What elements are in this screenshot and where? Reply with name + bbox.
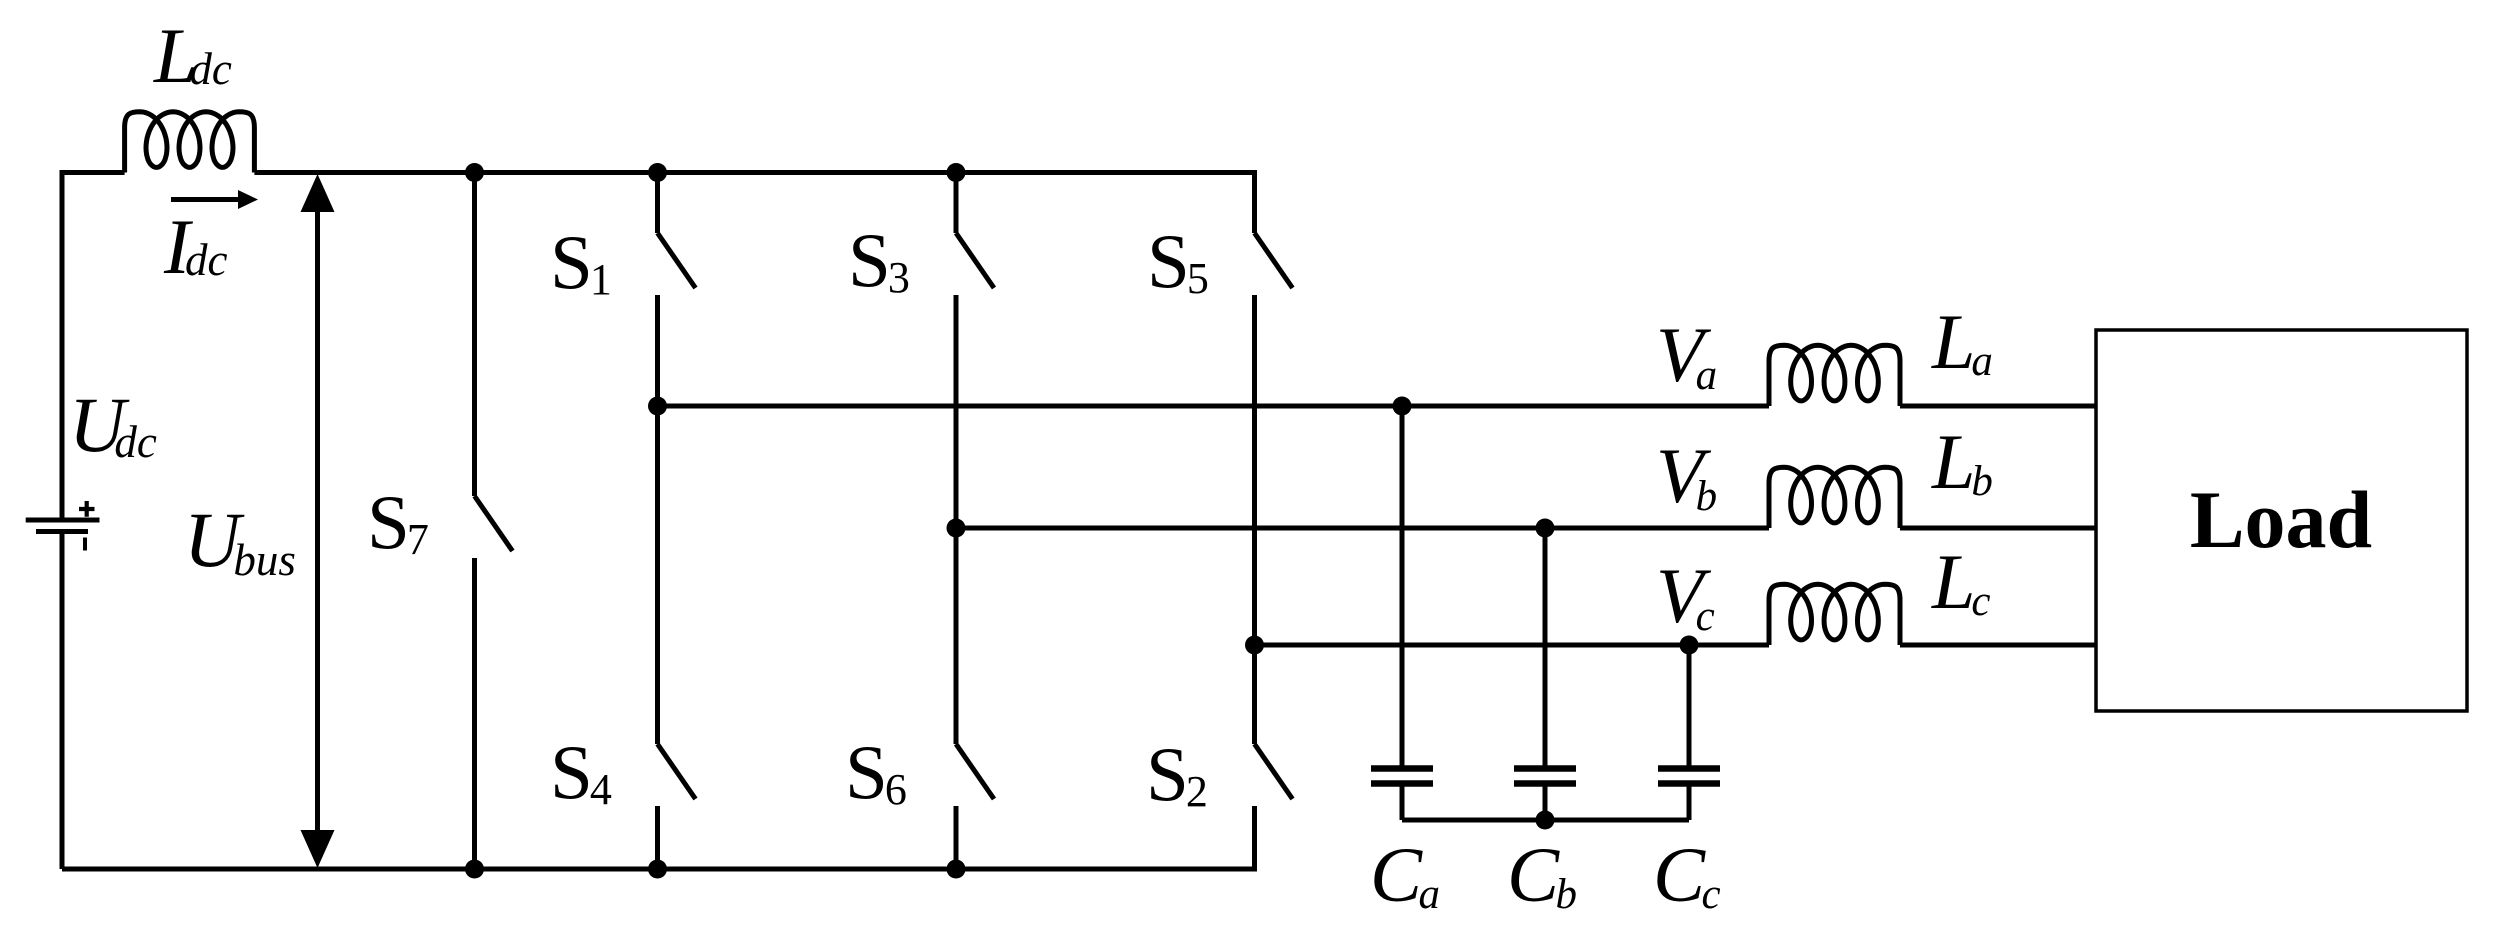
wire leg B mid section xyxy=(954,295,959,744)
wire phase C output (node to load) xyxy=(1255,643,2097,648)
wire S6 lower stub xyxy=(954,806,959,869)
wire Cb lower lead xyxy=(1543,787,1548,821)
wire leg A mid section xyxy=(655,295,660,744)
node phase C / Cc xyxy=(1680,636,1699,655)
wire phase B output (node to load) xyxy=(956,526,2096,531)
wire Cb upper lead xyxy=(1543,528,1548,766)
battery Udc plates xyxy=(26,518,100,523)
capacitor Cb xyxy=(1514,765,1576,772)
svg-text:Cb: Cb xyxy=(1507,831,1577,918)
wire Cc upper lead xyxy=(1687,645,1692,766)
battery plus polarity mark xyxy=(79,501,95,517)
svg-text:S7: S7 xyxy=(367,479,429,565)
svg-text:La: La xyxy=(1931,298,1993,385)
svg-text:S5: S5 xyxy=(1147,218,1209,304)
svg-text:Vb: Vb xyxy=(1656,432,1717,520)
svg-text:Ldc: Ldc xyxy=(153,12,232,99)
inductor Lc xyxy=(1769,584,1900,645)
inductor La xyxy=(1769,345,1900,406)
wire top dc bus xyxy=(62,170,1255,175)
wire S1 upper stub xyxy=(655,173,660,234)
node top wire / S1 xyxy=(648,163,667,182)
svg-text:Lb: Lb xyxy=(1931,418,1993,505)
node bottom wire / S4 xyxy=(648,860,667,879)
switch S6 blade xyxy=(956,744,994,799)
svg-text:Ca: Ca xyxy=(1370,831,1440,918)
arrow Idc current direction xyxy=(171,197,240,202)
load box xyxy=(2096,330,2467,711)
svg-text:Udc: Udc xyxy=(69,381,157,468)
inductor Ldc xyxy=(125,112,255,173)
svg-text:Load: Load xyxy=(2190,474,2372,565)
switch S3 blade xyxy=(956,233,994,288)
wire bottom return bus xyxy=(62,867,1255,872)
svg-text:S2: S2 xyxy=(1146,731,1208,817)
node phase B / Cb xyxy=(1536,519,1555,538)
capacitor Cc xyxy=(1658,765,1720,772)
measurement arrow Ubus (double headed) xyxy=(315,208,320,834)
node capacitor bus / Cb xyxy=(1536,811,1555,830)
wire leg C mid section xyxy=(1252,295,1257,744)
node top wire / S7 xyxy=(465,163,484,182)
switch S7 blade xyxy=(475,496,513,551)
svg-text:Vc: Vc xyxy=(1656,552,1715,640)
node phase A / leg1 xyxy=(648,397,667,416)
wire S2 lower stub xyxy=(1252,806,1257,872)
wire Cc lower lead xyxy=(1687,787,1692,821)
node bottom wire / S7 xyxy=(465,860,484,879)
svg-text:Idc: Idc xyxy=(163,203,227,290)
node top wire / S3 xyxy=(947,163,966,182)
inductor Lb xyxy=(1769,467,1900,528)
wire S7 upper stub xyxy=(472,173,477,497)
battery minus polarity mark xyxy=(83,538,87,551)
capacitor Ca xyxy=(1371,765,1433,772)
wire capacitor common bus xyxy=(1402,818,1689,823)
wire S3 upper stub xyxy=(954,173,959,234)
wire left branch (dc source) xyxy=(60,170,65,869)
svg-text:S1: S1 xyxy=(550,219,612,305)
wire S4 lower stub xyxy=(655,806,660,869)
svg-text:S4: S4 xyxy=(550,729,612,815)
switch S2 blade xyxy=(1255,744,1293,799)
wire Ca lower lead xyxy=(1400,787,1405,821)
node phase B / leg2 xyxy=(947,519,966,538)
svg-text:S3: S3 xyxy=(848,217,910,303)
switch S4 blade xyxy=(658,744,696,799)
node bottom wire / S6 xyxy=(947,860,966,879)
wire Ca upper lead xyxy=(1400,406,1405,766)
wire phase A output (node to load) xyxy=(658,404,2097,409)
svg-text:Lc: Lc xyxy=(1931,538,1990,625)
svg-text:S6: S6 xyxy=(845,729,907,815)
switch S5 blade xyxy=(1255,233,1293,288)
switch S1 blade xyxy=(658,233,696,288)
node phase C / leg3 xyxy=(1245,636,1264,655)
svg-text:Cc: Cc xyxy=(1653,831,1721,918)
wire S7 lower stub xyxy=(472,558,477,869)
svg-text:Ubus: Ubus xyxy=(184,496,296,585)
svg-text:Va: Va xyxy=(1656,311,1717,399)
wire S5 upper stub xyxy=(1252,170,1257,233)
node phase A / Ca xyxy=(1393,397,1412,416)
